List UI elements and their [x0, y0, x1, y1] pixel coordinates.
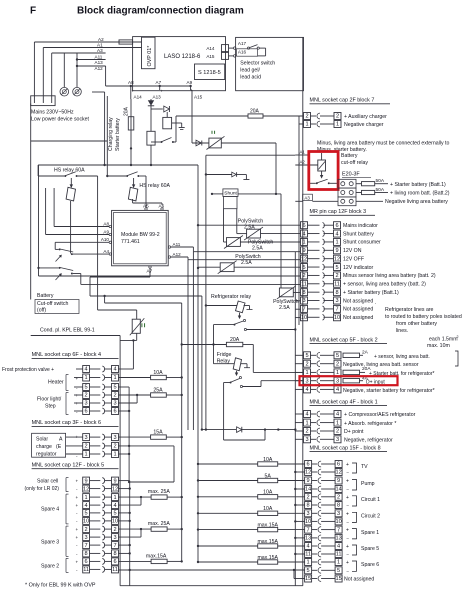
svg-text:9: 9: [302, 248, 305, 254]
diode on refrigerator supply: [202, 429, 236, 431]
HS relay coil 1: [66, 187, 75, 201]
svg-text:12: 12: [305, 470, 311, 476]
svg-text:4: 4: [305, 387, 308, 393]
wire A14 stem: [130, 86, 132, 99]
svg-text:Floor light/: Floor light/: [37, 397, 62, 403]
bus vertical x129 block5: [129, 489, 131, 586]
svg-text:MNL socket cap 3F - block 6: MNL socket cap 3F - block 6: [32, 420, 102, 426]
svg-text:lead acid: lead acid: [240, 75, 261, 81]
svg-text:A2: A2: [300, 160, 306, 165]
wire charger to block7 with 20A fuse: [173, 141, 176, 143]
svg-text:max. 25A: max. 25A: [148, 521, 170, 527]
svg-text:each 1.5mm: each 1.5mm: [429, 337, 458, 343]
svg-text:Heater: Heater: [48, 380, 64, 386]
pins A14 A15 on LASO right edge: [222, 45, 229, 52]
svg-text:Spare 6: Spare 6: [361, 562, 379, 568]
svg-text:6: 6: [85, 559, 88, 565]
svg-text:1: 1: [113, 375, 116, 381]
wire bottom bus: [120, 585, 303, 587]
svg-text:LASO 1218-6: LASO 1218-6: [164, 54, 201, 60]
refrigerator relay switch: [239, 313, 241, 317]
svg-text:2.5A: 2.5A: [279, 305, 290, 311]
svg-text:Block diagram/connection diagr: Block diagram/connection diagram: [77, 6, 244, 17]
svg-text:9: 9: [335, 248, 338, 254]
svg-text:7: 7: [307, 527, 310, 533]
wire block4 row5 down: [119, 386, 130, 388]
fuse 2A sensor: [343, 353, 360, 357]
svg-text:Not assigned: Not assigned: [343, 298, 373, 304]
svg-text:+ Compressor/AES refrigerator: + Compressor/AES refrigerator: [344, 412, 416, 418]
svg-text:A13: A13: [95, 60, 104, 65]
fuse 4A D+ input: [343, 379, 360, 383]
wire to cut-off relay coil A1: [206, 154, 295, 156]
wire block3 row12 12V OFF: [188, 259, 301, 261]
svg-text:MNL socket cap 15F - block 8: MNL socket cap 15F - block 8: [310, 445, 381, 451]
svg-text:3: 3: [337, 511, 340, 517]
svg-text:4: 4: [335, 231, 338, 237]
svg-text:5: 5: [337, 568, 340, 574]
svg-text:Selector switch: Selector switch: [240, 61, 275, 67]
svg-text:D+ point: D+ point: [344, 429, 364, 435]
svg-text:6: 6: [302, 223, 305, 229]
svg-text:A1: A1: [300, 150, 306, 155]
wire y310 to thermal fuse: [98, 309, 137, 311]
svg-text:A1: A1: [97, 43, 103, 48]
svg-text:+: +: [76, 495, 79, 500]
svg-text:2: 2: [85, 444, 88, 450]
bus vertical x193: [192, 252, 194, 430]
connector block 1: [295, 413, 303, 415]
svg-text:max. 25A: max. 25A: [148, 489, 170, 495]
svg-text:+ sensor, living area battery: + sensor, living area battery (batt. 2): [343, 282, 426, 288]
svg-text:5: 5: [302, 265, 305, 271]
connector block 5: [83, 477, 90, 484]
wire block3 row5 12V indicator: [198, 266, 220, 268]
wire block6 row1: [119, 453, 130, 455]
wire block5 spare3 plus rows: [119, 528, 152, 530]
svg-text:10: 10: [335, 519, 341, 525]
battery cut-off switch 2: [39, 267, 59, 269]
svg-text:Fridge: Fridge: [217, 352, 232, 358]
svg-text:A12: A12: [173, 252, 182, 257]
svg-text:2: 2: [113, 444, 116, 450]
wire row2 minus sensor: [38, 165, 40, 276]
svg-text:8: 8: [302, 290, 305, 296]
svg-text:+: +: [346, 528, 349, 534]
wires block5 negatives to bus: [119, 488, 130, 490]
svg-text:A11: A11: [95, 55, 103, 60]
switch below relay: [161, 141, 163, 143]
svg-text:8: 8: [113, 551, 116, 557]
svg-text:6: 6: [337, 462, 340, 468]
svg-text:4: 4: [336, 412, 339, 418]
svg-text:Not assigned: Not assigned: [344, 577, 374, 583]
bus vertical x198: [197, 165, 199, 562]
wire block3 row9 12V ON: [193, 251, 300, 253]
wire between relays: [107, 175, 126, 177]
fuse 50A starter: [356, 183, 362, 185]
svg-text:2: 2: [307, 495, 310, 501]
shunt resistor: [224, 196, 238, 208]
svg-text:12: 12: [301, 256, 307, 262]
wire switch2 output to row11: [73, 273, 81, 275]
svg-text:2: 2: [113, 527, 116, 533]
wire block6 row3 fuse 15A: [119, 436, 151, 438]
mains socket symbol 2: [73, 87, 82, 96]
svg-text:A16: A16: [238, 50, 247, 55]
svg-text:3: 3: [336, 437, 339, 443]
battery cut-off relay switch: [321, 171, 323, 177]
svg-text:11: 11: [305, 552, 311, 558]
svg-text:max. 10m: max. 10m: [427, 343, 450, 349]
selector switch enclosure: [236, 37, 304, 90]
svg-text:A4: A4: [103, 249, 109, 254]
svg-text:.: .: [375, 300, 376, 306]
connector block 7: [299, 115, 304, 117]
wire block4 rows 2+3 tied: [119, 394, 151, 396]
svg-text:14: 14: [305, 487, 311, 493]
wire A3 stub: [303, 194, 313, 200]
svg-text:Negative living area battery: Negative living area battery: [385, 199, 448, 205]
svg-text:14: 14: [335, 487, 341, 493]
svg-text:5: 5: [335, 265, 338, 271]
svg-text:Solar: Solar: [36, 437, 48, 443]
svg-text:+: +: [346, 462, 349, 468]
fuse 20A starter refrigerator: [343, 370, 360, 374]
svg-text:+: +: [76, 401, 79, 406]
wire block6 loop: [119, 445, 175, 447]
svg-text:+: +: [76, 479, 79, 484]
svg-text:15: 15: [335, 576, 341, 582]
svg-text:3: 3: [113, 401, 116, 407]
svg-text:Shunt consumer: Shunt consumer: [343, 240, 381, 246]
wire HS coil1 to switch: [70, 201, 72, 254]
svg-text:Spare 5: Spare 5: [361, 546, 379, 552]
svg-text:MNL socket cap 4F - block 1: MNL socket cap 4F - block 1: [310, 399, 378, 405]
svg-text:Solar cell: Solar cell: [37, 479, 58, 485]
svg-text:5: 5: [85, 385, 88, 391]
svg-text:+ sensor, living area batt.: + sensor, living area batt.: [374, 354, 430, 360]
svg-text:2: 2: [336, 361, 339, 367]
svg-text:+: +: [346, 479, 349, 485]
svg-text:A7: A7: [147, 269, 153, 274]
svg-text:771.461: 771.461: [121, 239, 140, 245]
svg-text:3: 3: [307, 511, 310, 517]
mains plug box: [31, 96, 55, 106]
svg-text:+: +: [346, 511, 349, 517]
svg-text:A14: A14: [206, 46, 215, 51]
svg-text:+: +: [76, 393, 79, 398]
svg-text:+ Absorb. refrigerator *: + Absorb. refrigerator *: [344, 421, 396, 427]
svg-text:12V indicator: 12V indicator: [343, 265, 374, 271]
battery cut-off switch 1: [55, 248, 58, 250]
svg-text:5: 5: [336, 353, 339, 359]
svg-text:11: 11: [301, 281, 307, 287]
svg-text:12V OFF: 12V OFF: [343, 256, 364, 262]
svg-text:2: 2: [336, 114, 339, 120]
svg-text:1: 1: [336, 420, 339, 426]
wire A11: [77, 59, 106, 61]
svg-text:4: 4: [336, 387, 339, 393]
svg-text:A: A: [59, 437, 63, 443]
svg-text:3: 3: [85, 435, 88, 441]
svg-text:MNL socket cap 2F block 7: MNL socket cap 2F block 7: [310, 98, 375, 104]
svg-text:6: 6: [85, 409, 88, 415]
svg-text:Starter battery: Starter battery: [115, 118, 121, 151]
svg-text:A13: A13: [153, 95, 162, 100]
svg-text:Pump: Pump: [361, 481, 375, 487]
svg-text:3: 3: [113, 435, 116, 441]
wire block5 spare4 plus rows: [119, 496, 152, 498]
svg-text:lead gel/: lead gel/: [240, 68, 260, 74]
svg-text:13: 13: [305, 536, 311, 542]
wire A13 stem: [159, 86, 161, 90]
svg-text:A14: A14: [134, 95, 143, 100]
ground stub: [172, 122, 182, 124]
solar regulator box: [32, 433, 66, 457]
module right pins A11 A12: [168, 246, 170, 248]
wire refrigerator switch output: [247, 329, 296, 331]
svg-text:+: +: [76, 527, 79, 532]
connector block 4: [83, 366, 90, 373]
svg-text:Minus sensor living area batte: Minus sensor living area battery (batt. …: [343, 273, 436, 279]
E20 connector grid: [338, 179, 356, 188]
svg-text:MNL socket cap 6F - block 4: MNL socket cap 6F - block 4: [32, 352, 102, 358]
polyswitch PS3: [220, 263, 234, 272]
svg-text:A9: A9: [103, 229, 109, 234]
svg-text:OVP 01*: OVP 01*: [147, 45, 153, 67]
wire y296 battery feed: [90, 295, 202, 297]
fuse on A2 line: [119, 40, 133, 44]
svg-text:A7: A7: [156, 80, 162, 85]
svg-text:Module BW 99-2: Module BW 99-2: [121, 232, 160, 238]
svg-text:+: +: [346, 544, 349, 550]
bus vertical right x299: [298, 116, 300, 325]
svg-text:HS relay 60A: HS relay 60A: [139, 183, 170, 189]
svg-text:2: 2: [113, 393, 116, 399]
svg-text:1: 1: [307, 560, 310, 566]
wire spare2 negative long bus: [119, 569, 305, 571]
svg-text:1: 1: [85, 375, 88, 381]
svg-text:1: 1: [335, 240, 338, 246]
svg-text:3: 3: [335, 298, 338, 304]
svg-text:Minus, living area battery mus: Minus, living area battery must be conne…: [317, 141, 449, 147]
svg-text:(E: (E: [56, 444, 62, 450]
fuse 50A living room: [356, 192, 362, 194]
svg-text:2A: 2A: [362, 350, 369, 356]
wire block3 row6 mains indicator: [198, 224, 301, 226]
wire block4 row1 fuse 10A: [119, 377, 151, 379]
module bottom pin A7: [149, 266, 151, 268]
HS relay switch 1: [64, 175, 66, 177]
svg-text:11: 11: [112, 567, 118, 573]
svg-text:8: 8: [337, 503, 340, 509]
wire shunt to PS1: [236, 209, 238, 234]
svg-text:A3: A3: [304, 195, 310, 200]
wire block4 row6: [119, 410, 130, 412]
svg-text:Negative, refrigerator: Negative, refrigerator: [344, 438, 393, 444]
svg-text:Spare 3: Spare 3: [41, 540, 59, 546]
svg-text:HS relay 60A: HS relay 60A: [54, 168, 85, 174]
svg-text:1: 1: [113, 495, 116, 501]
wire row15 termination: [294, 578, 305, 580]
svg-text:Not assigned: Not assigned: [343, 315, 373, 321]
connector block 6: [83, 434, 90, 441]
svg-text:Shunt battery: Shunt battery: [343, 231, 374, 237]
svg-text:2: 2: [85, 527, 88, 533]
svg-text:MNL socket cap 12F - block 5: MNL socket cap 12F - block 5: [32, 462, 105, 468]
svg-text:MR pin cap 12F block 3: MR pin cap 12F block 3: [310, 209, 367, 215]
wire fridge switch feed loop: [224, 382, 231, 384]
svg-text:Charging relay: Charging relay: [108, 117, 114, 151]
svg-text:A15: A15: [194, 95, 203, 100]
svg-text:1: 1: [85, 495, 88, 501]
LASO 1218-6 charger box: [133, 37, 226, 91]
wire refrigerator switch feed: [214, 324, 235, 326]
svg-text:+: +: [76, 503, 79, 508]
svg-text:4: 4: [85, 503, 88, 509]
stub block3 row10: [295, 317, 300, 319]
battery sensor device (thermal): [209, 138, 221, 148]
svg-text:7: 7: [113, 543, 116, 549]
left border wire: [30, 104, 32, 142]
wire module A8: [54, 226, 109, 228]
svg-text:3: 3: [302, 298, 305, 304]
bus vertical right x303: [302, 91, 304, 586]
svg-text:A8: A8: [128, 80, 134, 85]
svg-text:2.5A: 2.5A: [252, 246, 263, 252]
svg-text:Negative, living area batt. se: Negative, living area batt. sensor: [343, 362, 419, 368]
wire A15 stem: [190, 86, 192, 90]
svg-text:10: 10: [83, 519, 89, 525]
svg-text:Cut-off switch: Cut-off switch: [37, 301, 68, 307]
svg-text:5: 5: [113, 511, 116, 517]
svg-text:2.5A: 2.5A: [244, 225, 255, 231]
svg-text:8: 8: [85, 551, 88, 557]
battery cut-off relay coil: [318, 160, 326, 171]
wire A1: [43, 47, 141, 49]
wire A7 down: [90, 276, 150, 278]
negative feeds block 8: [295, 471, 304, 473]
svg-text:Circuit 1: Circuit 1: [361, 497, 380, 503]
svg-text:TV: TV: [361, 464, 368, 470]
svg-text:lines.: lines.: [396, 328, 408, 334]
svg-text:7: 7: [335, 307, 338, 313]
wire pair down from LASO: [104, 92, 106, 165]
diode on A13 line: [150, 99, 152, 165]
HS relay coil 2: [128, 187, 137, 201]
svg-text:Negative charger: Negative charger: [344, 122, 384, 128]
svg-text:Cond. pl. KPL EBL 99-1: Cond. pl. KPL EBL 99-1: [40, 328, 95, 334]
svg-text:Battery: Battery: [37, 293, 54, 299]
bus vertical right x295: [294, 252, 296, 586]
svg-text:1: 1: [336, 122, 339, 128]
polyswitch PS4: [279, 288, 293, 297]
mains socket symbol 1: [60, 87, 69, 96]
svg-text:regulator: regulator: [36, 452, 57, 458]
svg-text:A15: A15: [206, 54, 215, 59]
connector block 3: [301, 222, 308, 229]
svg-text:2: 2: [337, 495, 340, 501]
svg-text:12: 12: [334, 256, 340, 262]
svg-text:10: 10: [305, 519, 311, 525]
svg-text:Shunt: Shunt: [224, 191, 237, 197]
ground symbol: [245, 175, 247, 180]
svg-text:7: 7: [337, 527, 340, 533]
svg-text:2: 2: [302, 273, 305, 279]
refrigerator relay coil: [236, 301, 246, 313]
wire block5 spare2 plus: [119, 560, 152, 562]
svg-text:to routed to battery poles iso: to routed to battery poles isolated: [385, 314, 462, 320]
module left pins A8 A9 A10 A4: [109, 225, 111, 227]
svg-text:6: 6: [113, 559, 116, 565]
svg-text:4: 4: [305, 412, 308, 418]
svg-text:A10: A10: [101, 237, 110, 242]
fridge relay switch: [236, 371, 238, 374]
svg-text:3: 3: [305, 378, 308, 384]
svg-text:Spare 2: Spare 2: [41, 564, 59, 570]
svg-text:12: 12: [335, 470, 341, 476]
connector block 2: [295, 354, 303, 356]
fused feeds block 8: [198, 463, 258, 465]
svg-text:Spare 1: Spare 1: [361, 530, 379, 536]
svg-text:12: 12: [83, 486, 89, 492]
svg-text:4: 4: [113, 503, 116, 509]
svg-text:Refrigerator relay: Refrigerator relay: [211, 294, 251, 300]
svg-text:A17: A17: [238, 41, 247, 46]
svg-text:S 1218-5: S 1218-5: [198, 70, 221, 76]
svg-text:+ Starter battery (Batt.1): + Starter battery (Batt.1): [390, 182, 446, 188]
svg-text:A11: A11: [173, 242, 181, 247]
svg-text:+: +: [76, 560, 79, 565]
svg-text:9: 9: [307, 478, 310, 484]
svg-text:1: 1: [305, 122, 308, 128]
svg-text:max.15A: max.15A: [146, 554, 167, 560]
svg-text:10: 10: [301, 315, 307, 321]
svg-text:4: 4: [113, 367, 116, 373]
svg-text:A2: A2: [98, 37, 104, 42]
OVP 01 module: [142, 37, 156, 68]
shunt label box: [223, 189, 238, 197]
svg-text:A8: A8: [103, 221, 109, 226]
bus vertical x202: [201, 296, 203, 430]
S 1218-5 box: [195, 64, 225, 80]
wire module A10: [55, 241, 109, 243]
svg-text:3: 3: [85, 401, 88, 407]
svg-text:2: 2: [305, 361, 308, 367]
svg-text:2: 2: [335, 273, 338, 279]
svg-text:from other battery: from other battery: [396, 321, 437, 327]
red highlight D+ input row: [300, 376, 398, 385]
svg-text:3: 3: [336, 378, 339, 384]
wire shunt right to PS4 feed: [238, 193, 281, 195]
svg-text:* Only for EBL 99 K with OVP: * Only for EBL 99 K with OVP: [25, 583, 96, 589]
stub block3 row3: [295, 300, 300, 302]
diode to ground: [206, 174, 232, 176]
svg-text:Low power device socket: Low power device socket: [31, 117, 90, 123]
wire block3 row8 starter battery: [281, 291, 301, 293]
svg-text:5: 5: [307, 568, 310, 574]
svg-text:Step: Step: [45, 404, 56, 410]
wire A2: [34, 41, 141, 43]
svg-text:4: 4: [85, 367, 88, 373]
wire A8-A7-A9 inside LASO: [106, 85, 191, 87]
svg-text:Refrigerator lines are: Refrigerator lines are: [385, 307, 434, 313]
svg-text:9: 9: [337, 478, 340, 484]
svg-text:2: 2: [85, 393, 88, 399]
svg-text:9: 9: [113, 478, 116, 484]
svg-text:1: 1: [302, 240, 305, 246]
